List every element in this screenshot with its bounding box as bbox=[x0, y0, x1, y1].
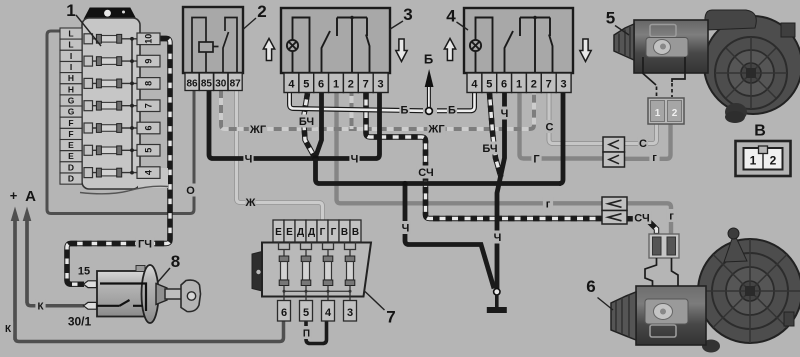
label wire Ч to ground right bbox=[492, 231, 502, 245]
label wire БЧ switch 3 bbox=[297, 115, 315, 129]
label wire Ч to ground left bbox=[400, 221, 410, 235]
fuse block 7 bottom terminal 3 bbox=[344, 301, 357, 322]
fuse box terminal 4 bbox=[137, 167, 160, 179]
label item 8 bbox=[157, 252, 180, 283]
connector В bbox=[736, 141, 791, 176]
node А arrows bbox=[11, 207, 32, 341]
svg-text:А: А bbox=[25, 188, 36, 205]
label item 5 bbox=[606, 9, 629, 36]
svg-text:L: L bbox=[68, 40, 73, 50]
svg-text:ЖГ: ЖГ bbox=[249, 124, 267, 136]
wire БЧ switch 4 terminal 5 striped bbox=[490, 93, 502, 177]
fuse block 7 fuse 4 bbox=[345, 242, 356, 302]
svg-text:5: 5 bbox=[303, 307, 309, 319]
svg-text:5: 5 bbox=[486, 79, 492, 91]
label wire Г switch 4 bbox=[531, 152, 541, 166]
label wire К at ignition bbox=[35, 299, 45, 313]
svg-text:Б: Б bbox=[448, 105, 456, 117]
switch 3 body bbox=[281, 8, 390, 73]
svg-text:Д: Д bbox=[308, 227, 315, 238]
fuse F9 bbox=[84, 56, 137, 66]
label wire П bbox=[301, 326, 311, 340]
svg-text:D: D bbox=[68, 174, 74, 184]
connector X1 upper half (wire С) bbox=[603, 137, 625, 152]
label item 2 bbox=[244, 2, 267, 29]
label wire СЧ near motor 6 bbox=[633, 211, 651, 225]
wire О fuse box to relay 86 bbox=[47, 31, 194, 214]
label wire СЧ switch 3 bbox=[417, 166, 435, 180]
motor 6 cylinder body bbox=[636, 286, 706, 345]
svg-text:г: г bbox=[546, 199, 551, 211]
svg-text:8: 8 bbox=[171, 252, 180, 271]
svg-text:Е: Е bbox=[286, 227, 293, 238]
label item 1 bbox=[66, 1, 101, 46]
svg-text:2: 2 bbox=[770, 154, 777, 168]
svg-text:г: г bbox=[669, 211, 674, 223]
wire К long bottom wire to fuse block 7 terminal 6 bbox=[15, 219, 284, 342]
relay U2 body bbox=[183, 7, 243, 73]
svg-text:СЧ: СЧ bbox=[418, 167, 433, 179]
svg-text:Ж: Ж bbox=[245, 197, 256, 209]
svg-text:85: 85 bbox=[201, 79, 213, 90]
svg-text:15: 15 bbox=[78, 266, 90, 278]
svg-text:7: 7 bbox=[363, 79, 369, 91]
svg-text:1: 1 bbox=[66, 1, 75, 20]
wire СЧ switch 3 terminal 7 to connector striped bbox=[366, 93, 602, 219]
svg-text:D: D bbox=[68, 162, 74, 172]
svg-text:Г: Г bbox=[320, 227, 326, 238]
motor 5 gear housing bbox=[704, 10, 800, 123]
svg-text:1: 1 bbox=[750, 154, 757, 168]
svg-text:4: 4 bbox=[446, 7, 456, 26]
fuse block 7 fuse 3 bbox=[323, 242, 334, 302]
svg-text:8: 8 bbox=[144, 81, 154, 86]
fuse box terminal 7 bbox=[137, 100, 160, 112]
switch 4 contacts bbox=[505, 16, 553, 73]
svg-text:2: 2 bbox=[531, 79, 537, 91]
svg-text:Ч: Ч bbox=[351, 154, 359, 166]
svg-text:3: 3 bbox=[347, 307, 353, 319]
fuse F10 bbox=[84, 34, 137, 44]
wire Г connector to motor 5 pin 2 bbox=[625, 122, 671, 159]
connector X2 lower half (wire СЧ) bbox=[602, 211, 627, 225]
wire С connector to motor 5 pin 1 bbox=[625, 122, 657, 144]
svg-text:2: 2 bbox=[348, 79, 354, 91]
svg-text:10: 10 bbox=[144, 34, 154, 44]
fuse box terminal 10 bbox=[137, 33, 160, 45]
svg-text:1: 1 bbox=[333, 79, 339, 91]
label wire Ч right of junction bbox=[349, 152, 359, 166]
ignition terminal pin 30/1 bbox=[84, 302, 97, 309]
svg-text:Б: Б bbox=[424, 52, 433, 67]
wire ЖГ relay 30 to switches dashed bbox=[221, 90, 534, 129]
svg-text:1: 1 bbox=[516, 79, 522, 91]
svg-text:7: 7 bbox=[546, 79, 552, 91]
wire П fuse block terminals 5 to 4 bbox=[306, 321, 327, 344]
relay U2 terminals 86 85 30 87 bbox=[185, 73, 242, 91]
wire Ч T down to ground bbox=[405, 184, 494, 289]
fuse box terminal 5 bbox=[137, 145, 160, 157]
relay U2 coil and contact bbox=[192, 18, 237, 74]
svg-text:6: 6 bbox=[501, 79, 507, 91]
svg-text:I: I bbox=[70, 62, 72, 72]
fuse F6 bbox=[84, 123, 137, 133]
wire Ч relay 85 to junction bbox=[209, 90, 314, 159]
switch 4 lamp bbox=[470, 18, 493, 74]
svg-text:В: В bbox=[341, 227, 348, 238]
label node Б left wire bbox=[399, 103, 409, 117]
wire Ж relay 87 to fuse block 7 bbox=[237, 90, 323, 220]
fuse box terminal 6 bbox=[137, 122, 160, 134]
label wire Ч left of junction bbox=[243, 152, 253, 166]
svg-text:СЧ: СЧ bbox=[634, 213, 649, 225]
motor 5 connector pins 1 2 bbox=[648, 98, 684, 124]
label wire С switch 4 bbox=[544, 120, 554, 134]
motor 6 gear housing bbox=[698, 228, 800, 353]
svg-text:F: F bbox=[68, 118, 73, 128]
svg-text:4: 4 bbox=[471, 79, 478, 91]
svg-text:БЧ: БЧ bbox=[299, 116, 314, 128]
svg-text:Ч: Ч bbox=[494, 232, 502, 244]
fuse F8 bbox=[84, 78, 137, 88]
switch 3 terminals 4 5 6 1 2 7 3 bbox=[284, 73, 388, 93]
motor 5 internal leads and breaker bbox=[643, 57, 685, 97]
svg-text:С: С bbox=[639, 138, 647, 150]
fuse block 7 bottom terminal 6 bbox=[278, 301, 291, 322]
label item 6 bbox=[586, 277, 613, 310]
svg-text:7: 7 bbox=[144, 103, 154, 108]
svg-text:6: 6 bbox=[318, 79, 324, 91]
connector X1 lower half (wire Г) bbox=[603, 152, 625, 167]
svg-text:6: 6 bbox=[586, 277, 595, 296]
fuse block 7 fuse 2 bbox=[301, 242, 312, 302]
wire Г connector to motor 6 pin 2 bbox=[627, 203, 671, 234]
switch 3 lamp bbox=[287, 18, 310, 74]
label wire Г to motor 6 bbox=[543, 197, 553, 211]
junction T node bbox=[402, 181, 407, 186]
wire Б node Б to switch 4 terminal 4 bbox=[437, 93, 475, 111]
svg-text:6: 6 bbox=[144, 125, 154, 130]
motor 6 internal leads and breaker bbox=[645, 258, 678, 286]
svg-text:G: G bbox=[68, 107, 75, 117]
fuse block 7 left mounting tab bbox=[252, 251, 266, 293]
svg-text:G: G bbox=[68, 96, 75, 106]
connector X2 upper half (wire Г) bbox=[602, 197, 627, 211]
svg-text:С: С bbox=[546, 122, 554, 134]
wire Б switch 3 terminal 4 to node Б bbox=[290, 93, 424, 111]
svg-text:30/1: 30/1 bbox=[68, 315, 92, 329]
svg-text:5: 5 bbox=[303, 79, 309, 91]
ground symbol bbox=[487, 295, 507, 313]
wire К ignition 30/1 to node А bbox=[27, 219, 84, 306]
svg-text:ГЧ: ГЧ bbox=[138, 239, 152, 251]
wire Ч switch 4 terminal 3 down bbox=[559, 93, 563, 184]
svg-text:Б: Б bbox=[401, 105, 409, 117]
label wire ЖГ near switch 4 bbox=[427, 122, 445, 136]
label wire ГЧ bbox=[136, 237, 154, 251]
wire С switch 4 terminal 7 to connector bbox=[549, 93, 603, 144]
fuse block 7 body bbox=[262, 243, 371, 297]
svg-text:ЖГ: ЖГ bbox=[427, 124, 445, 136]
label wire О bbox=[185, 184, 195, 198]
ground junction node bbox=[494, 289, 500, 295]
label item 3 bbox=[390, 5, 413, 30]
svg-text:H: H bbox=[68, 84, 74, 94]
svg-text:К: К bbox=[5, 324, 12, 335]
wire БЧ switch 3 terminal 5 to junction striped bbox=[304, 93, 315, 156]
svg-text:5: 5 bbox=[606, 9, 615, 28]
wire Ч junction to switch 3 terminal 3 bbox=[316, 93, 380, 159]
fuse block 7 bottom terminal 5 bbox=[300, 301, 313, 322]
label wire Ж bbox=[245, 196, 256, 210]
ignition terminal pin 15 bbox=[84, 281, 97, 288]
label item 7 bbox=[365, 292, 396, 327]
svg-text:Ч: Ч bbox=[501, 108, 509, 120]
wire Ч switch 3 terminal 6 to junction bbox=[316, 93, 322, 157]
ignition key bbox=[165, 280, 201, 312]
svg-text:3: 3 bbox=[561, 79, 567, 91]
fuse F7 bbox=[84, 101, 137, 111]
label wire Г near motor 5 bbox=[649, 151, 659, 165]
label wire ЖГ near relay bbox=[249, 123, 267, 137]
svg-text:Ч: Ч bbox=[402, 223, 410, 235]
svg-text:4: 4 bbox=[144, 170, 154, 175]
svg-text:г: г bbox=[652, 152, 657, 164]
fuse F5 bbox=[84, 145, 137, 155]
motor 6 nose cone bbox=[611, 292, 636, 340]
wire Ч junction down and right bbox=[316, 159, 562, 184]
wire Г switch 3 terminal 1 to connector near motor 6 bbox=[337, 93, 603, 203]
label wire С near motor 5 bbox=[638, 137, 648, 151]
svg-text:E: E bbox=[68, 151, 74, 161]
fuse block 7 fuse 1 bbox=[279, 242, 290, 302]
fuse block 7 bottom terminal 4 bbox=[322, 301, 335, 322]
svg-text:7: 7 bbox=[386, 308, 395, 327]
svg-text:1: 1 bbox=[655, 108, 661, 119]
label item 4 bbox=[446, 7, 468, 31]
svg-text:2: 2 bbox=[257, 2, 266, 21]
svg-text:L: L bbox=[68, 29, 73, 39]
motor 5 cylinder body bbox=[634, 20, 708, 73]
ignition switch 8 internal contacts bbox=[97, 284, 146, 312]
wire Ч switch 4 terminal 6 to ground bbox=[497, 93, 505, 289]
up arrow symbol bbox=[263, 39, 274, 61]
label wire Г at motor 6 pin bbox=[666, 209, 676, 223]
svg-text:+: + bbox=[10, 188, 18, 203]
svg-text:3: 3 bbox=[403, 5, 412, 24]
svg-text:H: H bbox=[68, 73, 74, 83]
fuse box 1 body bbox=[80, 18, 169, 194]
svg-text:87: 87 bbox=[230, 79, 242, 90]
svg-text:Г: Г bbox=[331, 227, 337, 238]
label node Б right wire bbox=[447, 103, 457, 117]
svg-text:Г: Г bbox=[533, 154, 540, 166]
svg-text:К: К bbox=[37, 302, 44, 313]
motor 6 connector pins bbox=[649, 234, 679, 258]
svg-text:6: 6 bbox=[281, 307, 287, 319]
fuse F4 bbox=[84, 168, 137, 178]
svg-text:3: 3 bbox=[378, 79, 384, 91]
fuse box bus wire bbox=[131, 39, 133, 173]
svg-text:F: F bbox=[68, 129, 73, 139]
svg-text:В: В bbox=[754, 123, 766, 140]
svg-text:86: 86 bbox=[186, 79, 198, 90]
fuse box terminal 9 bbox=[137, 55, 160, 67]
down arrow symbol bbox=[580, 39, 591, 62]
label wire Ч switch 4 terminal 6 bbox=[499, 107, 509, 121]
switch 4 body bbox=[464, 8, 573, 73]
down arrow symbol bbox=[396, 39, 407, 62]
motor 5 nose cone bbox=[614, 24, 634, 60]
svg-text:I: I bbox=[70, 51, 72, 61]
switch 4 terminals 4 5 6 1 2 7 3 bbox=[467, 73, 571, 93]
node Б arrow bbox=[425, 69, 434, 114]
up arrow symbol bbox=[444, 39, 455, 61]
svg-text:E: E bbox=[68, 140, 74, 150]
fuse box 1 black top connector bbox=[85, 8, 136, 19]
wire СЧ connector to motor 6 pin 1 striped bbox=[627, 219, 657, 234]
wire Г switch 4 terminal 1 to connector bbox=[520, 93, 604, 159]
ignition switch 8 body bbox=[97, 265, 167, 323]
svg-text:Е: Е bbox=[275, 227, 282, 238]
svg-text:5: 5 bbox=[144, 148, 154, 153]
svg-text:БЧ: БЧ bbox=[482, 143, 497, 155]
svg-text:30: 30 bbox=[215, 79, 227, 90]
svg-text:9: 9 bbox=[144, 59, 154, 64]
switch 3 contacts bbox=[322, 16, 370, 73]
svg-text:П: П bbox=[303, 329, 310, 340]
fuse block 7 top terminals Е Е Д Д Г Г В В bbox=[273, 220, 361, 242]
svg-text:О: О bbox=[186, 185, 195, 197]
wire ГЧ fuse box to ignition terminal 15 striped bbox=[67, 39, 170, 285]
svg-text:Ч: Ч bbox=[245, 154, 253, 166]
fuse box 1 letter terminals column bbox=[60, 28, 82, 184]
svg-text:2: 2 bbox=[672, 108, 678, 119]
fuse block 7 internal bus bbox=[284, 290, 350, 292]
label wire БЧ switch 4 bbox=[481, 142, 499, 156]
svg-text:4: 4 bbox=[288, 79, 295, 91]
fuse box terminal 8 bbox=[137, 78, 160, 90]
junction node bbox=[312, 155, 318, 161]
svg-text:4: 4 bbox=[325, 307, 332, 319]
label wire К at bottom left bbox=[3, 322, 13, 336]
svg-text:В: В bbox=[352, 227, 359, 238]
svg-text:Д: Д bbox=[297, 227, 304, 238]
